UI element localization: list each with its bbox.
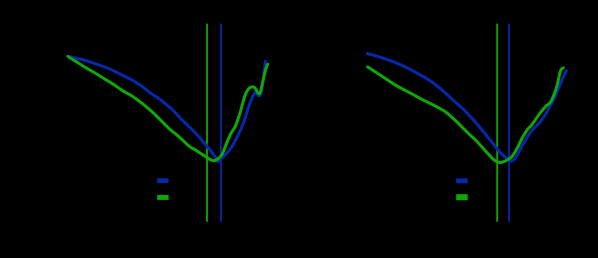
left panel: green curve	[68, 57, 268, 161]
right panel: blue curve	[367, 54, 566, 162]
right legend: blue line sample	[456, 178, 468, 183]
left panel: green vertical line (best-fit marker)	[206, 24, 208, 222]
right panel: green vertical line (best-fit marker)	[496, 24, 498, 222]
right panel: green curve	[368, 67, 564, 163]
left panel: blue vertical line (best-fit marker)	[220, 24, 222, 222]
left legend: blue line sample	[157, 178, 168, 183]
left panel: blue curve	[68, 56, 265, 161]
left legend: green line sample	[157, 195, 168, 200]
right panel: blue vertical line (best-fit marker)	[508, 24, 510, 222]
right legend: green line sample	[456, 194, 468, 200]
